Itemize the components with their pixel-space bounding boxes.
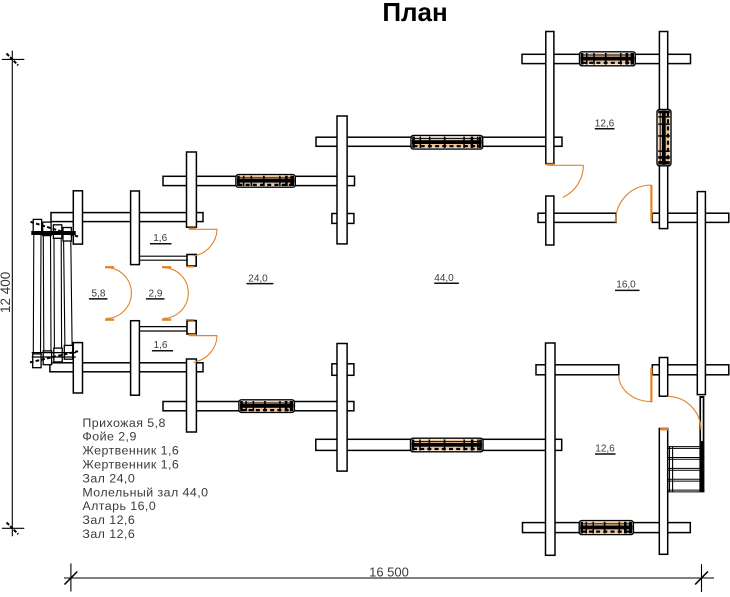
window: hall top <box>411 135 483 149</box>
wall: hall west wall lower <box>337 344 347 472</box>
wall: mid cross stub top (y213) <box>332 214 354 224</box>
svg-text:Жертвенник 1,6: Жертвенник 1,6 <box>82 458 179 472</box>
wall: hall 44.0 bottom <box>316 439 562 450</box>
wall: partition VB lower (1.6 room left) <box>131 321 140 396</box>
door: altar 16.0 south door (into 12.6 bottom) <box>619 368 653 403</box>
wall: room 12.6 top - west wall lower segment <box>546 196 554 245</box>
window: hall bottom <box>411 438 484 452</box>
svg-text:Зал 12,6: Зал 12,6 <box>82 513 135 527</box>
window: room 24.0 bottom <box>239 400 295 413</box>
title <box>382 0 447 27</box>
legend text block <box>82 416 208 541</box>
wall: left outer lower (porch side) <box>73 343 82 393</box>
wall: room 12.6 top - top wall <box>522 54 691 63</box>
wall: room 12.6 top - west wall upper <box>546 32 554 164</box>
room label 44.0 <box>434 273 459 284</box>
svg-text:Прихожая 5,8: Прихожая 5,8 <box>82 416 165 430</box>
partition: room 1.6 top bottom edge (double line) <box>139 256 187 260</box>
svg-text:12 400: 12 400 <box>0 272 13 313</box>
jamb post upper <box>187 255 196 267</box>
wall: room 12.6 bottom - west wall <box>546 343 556 555</box>
svg-text:1,6: 1,6 <box>154 340 168 351</box>
wall: left outer upper (porch side) <box>73 191 82 244</box>
wall: room 24.0 top <box>163 176 355 185</box>
svg-text:Зал 12,6: Зал 12,6 <box>82 527 135 541</box>
wall: hall 44.0 top <box>316 137 562 146</box>
wall: altar 16.0 bottom wall right segment <box>652 365 729 375</box>
stair: altar steps <box>668 447 705 492</box>
porch: bottom rail band <box>30 351 78 362</box>
room label 12.6 bottom <box>595 444 616 455</box>
door: room 1.6 bottom into hall 24.0 <box>189 334 218 362</box>
room label 16.0 <box>615 280 640 291</box>
svg-text:Зал 24,0: Зал 24,0 <box>82 471 135 485</box>
wall: left block top (y213) <box>51 213 203 222</box>
svg-text:Жертвенник 1,6: Жертвенник 1,6 <box>82 444 179 458</box>
svg-text:План: План <box>382 0 447 27</box>
svg-text:Алтарь 16,0: Алтарь 16,0 <box>82 499 156 513</box>
door: altar 16.0 north door (into 12.6 top) <box>615 185 653 222</box>
porch: top rail band <box>31 222 79 237</box>
room label 24.0 <box>247 273 274 284</box>
svg-text:Фойе 2,9: Фойе 2,9 <box>82 430 136 444</box>
svg-text:12,6: 12,6 <box>595 118 615 129</box>
room label 5.8 <box>89 288 108 299</box>
wall: hall west wall upper <box>337 116 347 244</box>
wall: altar 16.0 top wall left segment <box>538 213 616 222</box>
window: room 12.6 top - east <box>657 110 671 166</box>
door: room 12.6 bottom east door (to stair) <box>660 396 701 430</box>
wall: room 12.6 bottom - east wall upper segment <box>659 358 667 397</box>
wall: altar 16.0 top wall right segment <box>652 213 729 222</box>
svg-text:44,0: 44,0 <box>434 273 454 284</box>
room label 12.6 top <box>595 118 615 129</box>
door: room 1.6 top into hall 24.0 <box>189 228 218 256</box>
room label 1.6 bottom <box>152 340 173 351</box>
wall: room 24.0 bottom <box>163 402 354 411</box>
svg-text:2,9: 2,9 <box>149 288 163 299</box>
room label 2.9 <box>146 288 165 299</box>
door: foyer 2.9 double-swing upper arc <box>162 266 188 293</box>
porch: entry steps left side <box>33 219 73 367</box>
window: room 12.6 top - top <box>580 52 636 66</box>
door: foyer 2.9 double-swing lower arc <box>162 293 188 321</box>
door: room 12.6 top west door <box>546 163 583 197</box>
jamb post lower <box>187 321 196 334</box>
wall: room 12.6 bottom - bottom wall <box>523 523 691 533</box>
wall: altar 16.0 bottom wall left segment <box>536 365 619 375</box>
wall: room 12.6 bottom - east wall lower <box>659 429 667 555</box>
svg-text:1,6: 1,6 <box>153 233 167 244</box>
window: room 24.0 top <box>236 175 295 188</box>
svg-text:Молельный зал 44,0: Молельный зал 44,0 <box>82 485 208 499</box>
dimension line: left 12 400 <box>0 51 24 537</box>
wall: partition V3 upper (24.0 west wall) <box>187 152 197 227</box>
svg-text:12,6: 12,6 <box>595 444 615 455</box>
door: entry 5.8 double-swing upper arc <box>105 266 131 293</box>
svg-text:16,0: 16,0 <box>616 280 636 291</box>
wall: left block bottom (y363) <box>50 363 203 372</box>
stair: side rail (black bar) <box>699 396 704 492</box>
wall: partition V3 lower (24.0 west wall) <box>187 359 197 432</box>
door: jamb ticks at foyer opening <box>186 266 194 321</box>
svg-text:5,8: 5,8 <box>92 288 106 299</box>
partition: room 1.6 bottom top edge (double line) <box>139 327 187 331</box>
dimension line: bottom 16 500 <box>64 563 714 592</box>
wall: room 12.6 top - east wall <box>659 32 667 229</box>
window: room 12.6 bottom <box>579 521 633 535</box>
wall: mid cross stub bottom (y364) <box>332 364 354 376</box>
svg-text:16 500: 16 500 <box>369 565 409 580</box>
room label 1.6 top <box>150 233 172 244</box>
wall: partition VB upper (1.6 room left) <box>131 191 140 265</box>
door: entry 5.8 double-swing lower arc <box>105 293 131 321</box>
wall: big east wall <box>697 192 705 395</box>
svg-text:24,0: 24,0 <box>248 273 268 284</box>
